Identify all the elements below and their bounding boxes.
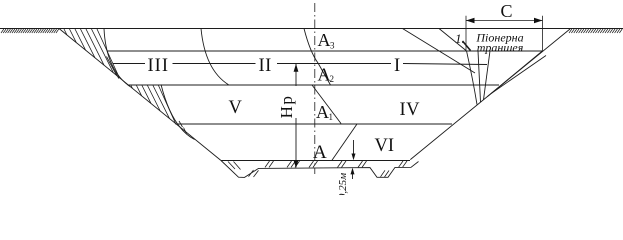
C dimension extension line right bbox=[542, 16, 544, 51]
bench line L2 (trench floor level) bbox=[108, 50, 543, 52]
bench line L5 bbox=[176, 123, 452, 125]
ground hatch right bbox=[569, 29, 622, 33]
fan line f1 bbox=[467, 51, 478, 105]
Hp arrow up bbox=[294, 64, 299, 72]
0.25m dimension lower shaft bbox=[352, 174, 354, 179]
centre axis dash-dot line bbox=[314, 3, 316, 174]
C dim arrow left bbox=[466, 18, 475, 24]
segment M3 bbox=[312, 85, 341, 124]
svg-text:1.: 1. bbox=[455, 31, 465, 46]
arc AR1 bbox=[201, 29, 229, 85]
bench line L3 segment b bbox=[173, 63, 256, 65]
arc M1 at axis bbox=[304, 29, 318, 64]
segment M2 bbox=[318, 63, 331, 85]
C dim arrow right bbox=[534, 18, 543, 24]
curve 1 (upper end-slope arc) bbox=[104, 29, 130, 87]
svg-text:VI: VI bbox=[375, 136, 395, 156]
svg-text:Нр: Нр bbox=[277, 95, 296, 119]
svg-text:IV: IV bbox=[400, 100, 421, 120]
fan line f3 bbox=[484, 51, 491, 100]
fan line f4 bbox=[488, 51, 543, 97]
svg-text:0,25м: 0,25м bbox=[337, 173, 349, 195]
ground surface line L1 bbox=[0, 28, 623, 30]
bench line L3 segment a bbox=[113, 63, 146, 65]
crescent 1 hatch bbox=[64, 29, 120, 79]
svg-text:траншея: траншея bbox=[477, 41, 524, 55]
svg-text:I: I bbox=[394, 56, 400, 76]
svg-text:А: А bbox=[313, 142, 327, 163]
svg-text:3: 3 bbox=[330, 41, 335, 51]
bottom band lower boundary with sump dips bbox=[221, 161, 419, 178]
bench line L3 segment c bbox=[277, 63, 391, 65]
ground hatch left bbox=[1, 29, 59, 33]
svg-text:III: III bbox=[148, 56, 169, 76]
bottom band hatch bbox=[228, 161, 407, 177]
0.25m arrow up bbox=[351, 168, 355, 175]
left pit slope bbox=[59, 29, 221, 161]
crescent 2 hatch bbox=[131, 86, 187, 134]
0.25m dimension upper shaft bbox=[353, 140, 355, 154]
segment V1 bbox=[332, 124, 357, 161]
Hp dimension line bbox=[295, 64, 297, 161]
svg-text:II: II bbox=[259, 56, 272, 76]
svg-text:А: А bbox=[318, 30, 331, 50]
svg-text:2: 2 bbox=[330, 74, 335, 84]
fan line f2 bbox=[478, 51, 481, 102]
pit bottom line L6 bbox=[221, 160, 410, 162]
curve 2 (lower end-slope arc) bbox=[161, 85, 195, 140]
bench line L3 segment d bbox=[403, 64, 487, 65]
0.25m arrow down bbox=[352, 154, 356, 161]
working slope X bbox=[403, 29, 476, 74]
trench left wall T1 bbox=[439, 29, 466, 51]
svg-text:V: V bbox=[229, 98, 243, 118]
fan line f4b bbox=[491, 56, 546, 94]
svg-text:А: А bbox=[316, 102, 329, 122]
C dimension line bbox=[466, 20, 543, 22]
leader tick for label 1 bbox=[463, 41, 471, 51]
svg-text:1: 1 bbox=[329, 112, 334, 122]
svg-text:С: С bbox=[501, 1, 513, 21]
right pit slope S bbox=[410, 29, 570, 160]
C dimension extension line left bbox=[465, 16, 467, 51]
bench line L4 bbox=[128, 84, 500, 86]
Hp arrow down bbox=[294, 160, 299, 168]
